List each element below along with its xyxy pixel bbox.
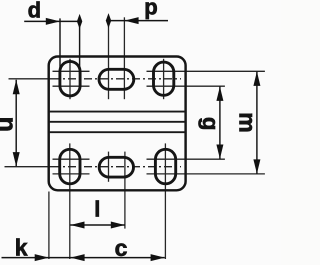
svg-text:l: l: [94, 197, 100, 222]
svg-text:n: n: [0, 117, 21, 132]
svg-text:c: c: [115, 235, 128, 261]
svg-text:p: p: [144, 0, 157, 19]
svg-text:d: d: [28, 0, 41, 22]
svg-text:k: k: [15, 235, 28, 261]
svg-text:m: m: [235, 112, 261, 132]
svg-text:g: g: [198, 117, 223, 130]
